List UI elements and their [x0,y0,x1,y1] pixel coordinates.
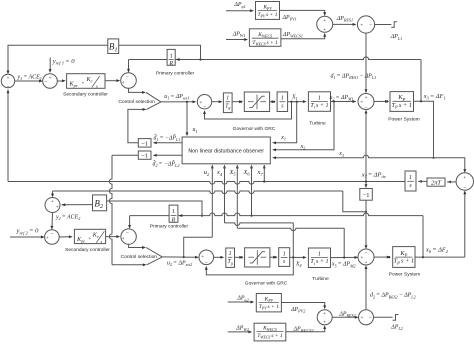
svg-text:Power System: Power System [388,116,420,122]
svg-text:+: + [364,260,367,266]
svg-text:x6 = ΔF2: x6 = ΔF2 [425,246,449,254]
svg-text:ΔPW1: ΔPW1 [232,31,246,38]
svg-text:+: + [51,199,54,205]
svg-text:ΔPW2: ΔPW2 [235,326,249,333]
svg-text:ΔPL1: ΔPL1 [390,34,402,41]
svg-text:1: 1 [229,251,232,257]
svg-text:ΔPφ1: ΔPφ1 [233,2,245,9]
svg-text:u1 = ΔPset1: u1 = ΔPset1 [164,94,189,101]
svg-text:+: + [48,75,51,81]
svg-text:x2 = ΔPM1: x2 = ΔPM1 [329,95,354,102]
svg-text:+: + [364,95,367,101]
svg-text:ΔPPV1: ΔPPV1 [282,15,297,22]
svg-text:Governor with GRC: Governor with GRC [245,280,288,286]
svg-text:−1: −1 [141,140,148,147]
svg-text:Primary controller: Primary controller [156,71,195,77]
svg-text:ΔPRES1: ΔPRES1 [336,16,353,23]
svg-text:1: 1 [318,95,321,101]
svg-text:d2 = ΔPRES2 − ΔPL2: d2 = ΔPRES2 − ΔPL2 [370,293,416,300]
svg-text:ΔPWECS2: ΔPWECS2 [293,327,314,334]
svg-text:Tt s + 1: Tt s + 1 [310,103,328,110]
svg-text:2πT: 2πT [431,179,441,186]
svg-text:Kpe: Kpe [69,81,78,88]
svg-text:+: + [323,27,326,33]
svg-text:+: + [323,311,326,317]
svg-text:Secondary controller: Secondary controller [65,247,110,253]
svg-text:+: + [323,18,326,24]
svg-text:−1: −1 [141,153,148,160]
svg-text:u2 = ΔPset2: u2 = ΔPset2 [167,260,192,267]
svg-text:+: + [323,320,326,326]
svg-text:+: + [360,315,363,321]
svg-text:d1 = ΔPRES1 − ΔPL1: d1 = ΔPRES1 − ΔPL1 [331,74,377,81]
svg-text:ΔPPV2: ΔPPV2 [290,307,305,314]
svg-text:x5 = ΔPM2: x5 = ΔPM2 [331,262,356,269]
svg-text:ΔPWECS1: ΔPWECS1 [282,32,303,39]
svg-text:+: + [199,100,202,106]
svg-text:TP s + 1: TP s + 1 [394,258,415,266]
svg-text:−: − [463,185,466,191]
svg-text:1: 1 [281,96,284,102]
svg-text:Power System: Power System [389,272,421,278]
svg-text:−: − [369,22,372,28]
svg-text:yref 1 = 0: yref 1 = 0 [52,58,76,66]
svg-text:x2: x2 [300,144,306,151]
svg-text:−: − [369,315,372,321]
svg-text:−: − [50,231,53,237]
svg-text:Control selection: Control selection [121,254,158,260]
svg-text:+: + [88,236,91,242]
svg-text:y2 = ACE2: y2 = ACE2 [55,214,80,221]
svg-text:x1: x1 [280,135,286,142]
svg-text:1: 1 [409,175,412,181]
svg-text:Ke: Ke [86,77,93,84]
svg-text:Tg: Tg [227,259,232,266]
svg-text:X4: X4 [295,262,302,269]
svg-text:TPV s + 1: TPV s + 1 [257,12,277,19]
svg-text:+: + [360,100,363,106]
svg-text:R: R [171,218,176,224]
svg-text:+: + [360,22,363,28]
svg-text:TPV s + 1: TPV s + 1 [259,304,279,311]
svg-text:X1: X1 [291,94,298,101]
svg-text:−: − [364,251,367,257]
svg-text:Tt s + 1: Tt s + 1 [310,259,328,266]
svg-text:Governor with GRC: Governor with GRC [233,126,276,132]
svg-text:−: − [205,260,208,266]
svg-text:1: 1 [170,53,173,59]
svg-text:Ke: Ke [92,233,99,240]
svg-text:R: R [168,61,173,67]
svg-text:−: − [203,104,206,110]
svg-text:Secondary controller: Secondary controller [63,91,108,97]
svg-text:Control selection: Control selection [118,99,155,105]
svg-text:Tg: Tg [225,103,230,110]
svg-text:−: − [126,74,129,80]
svg-text:Non linear disturbance observe: Non linear disturbance observer [188,149,264,155]
svg-text:+: + [56,204,59,210]
svg-text:−: − [126,230,129,236]
svg-text:+: + [360,255,363,261]
svg-text:Primary controller: Primary controller [150,224,189,230]
svg-text:Kpe: Kpe [76,237,85,244]
svg-text:+: + [463,175,466,181]
svg-text:TP s + 1: TP s + 1 [391,102,412,110]
svg-text:+: + [122,80,125,86]
svg-text:ΔPφ2: ΔPφ2 [236,296,248,303]
svg-text:+: + [46,235,49,241]
svg-text:u1: u1 [193,127,198,134]
svg-text:1: 1 [172,209,175,215]
svg-text:ΔPL2: ΔPL2 [390,325,402,332]
svg-text:−1: −1 [363,192,370,199]
svg-text:yref 2 = 0: yref 2 = 0 [16,228,40,236]
svg-text:Turbine: Turbine [309,121,326,127]
svg-text:−: − [44,79,47,85]
svg-text:x3: x3 [338,151,344,158]
svg-text:x3 = ΔF1: x3 = ΔF1 [423,93,446,101]
svg-text:1: 1 [318,252,321,258]
svg-text:ΔPRES2: ΔPRES2 [338,311,355,318]
svg-text:s: s [101,239,103,244]
svg-text:+: + [122,236,125,242]
svg-text:+: + [82,81,85,87]
svg-text:y1 = ACE1: y1 = ACE1 [17,75,42,82]
svg-text:+: + [201,254,204,260]
svg-text:Turbine: Turbine [312,276,329,282]
svg-text:1: 1 [283,251,286,257]
svg-text:+: + [6,76,9,82]
svg-text:s: s [96,84,98,89]
svg-text:1: 1 [226,96,229,102]
